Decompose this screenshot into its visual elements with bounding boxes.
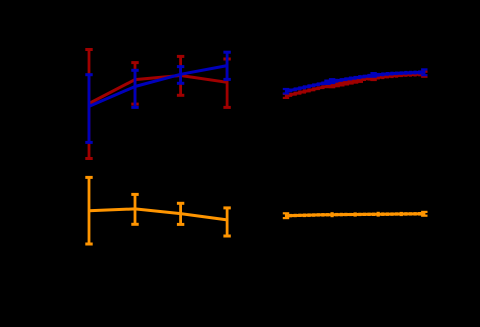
red errorbar TL p3 [177, 56, 184, 95]
red errorbar TL p2 [131, 63, 138, 105]
red line TL [89, 76, 227, 104]
orange errorbar BL p4 [223, 208, 230, 236]
orange errorbar BL p1 [85, 177, 92, 244]
blue errorbars TR (small) [283, 69, 428, 93]
blue line TR [286, 72, 424, 91]
red errorbar TL p1 [85, 50, 92, 159]
orange errorbar BL p3 [177, 203, 184, 224]
orange errorbar BL p2 [131, 194, 138, 224]
red errorbars TR (small) [283, 72, 428, 98]
blue errorbar TL p4 [223, 52, 230, 79]
blue errorbar TL p2 [131, 70, 138, 107]
blue line TL [89, 66, 227, 107]
orange line BR [286, 214, 424, 216]
red line TR [286, 74, 424, 96]
red errorbar TL p4 [223, 59, 230, 107]
orange line BL [89, 209, 227, 220]
blue errorbar TL p3 [177, 67, 184, 84]
orange errorbars BR (small) [283, 212, 428, 218]
blue errorbar TL p1 [85, 75, 92, 143]
